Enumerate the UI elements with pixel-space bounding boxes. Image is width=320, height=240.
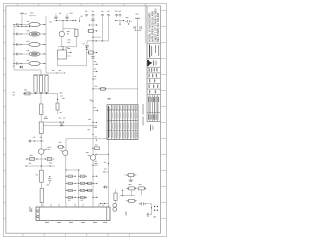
wire mid rail 1 [26,158,56,160]
svg-text:REV B DWG NO 100-482: REV B DWG NO 100-482 [156,12,160,42]
left border zone ticks [3,9,6,11]
wire bottom left stub [100,203,109,205]
ground symbol G1 [55,14,57,18]
resistor R38 vertical [114,193,117,200]
fuse F5 oval body [29,61,40,65]
node dots right text [154,206,155,207]
sheet outer border [3,3,166,236]
wire grid vertical 2 [78,170,80,203]
resistor R8 vertical in loop [75,29,78,36]
wire chain [40,115,42,123]
transistor Q2 [59,31,64,36]
top border zone ticks [16,3,18,6]
resistor R25 grid col B [79,182,87,184]
resistor R29 grid col C [93,182,97,184]
transistor Q1 [38,149,44,155]
transformer T1 winding 2 [39,75,42,92]
title block notes text [148,9,161,43]
connector J1 keying circles [37,210,39,212]
wire table drop to lower right [108,139,110,207]
resistor R21 grid col A [66,182,79,184]
wire stub y71 [93,71,97,73]
diode D1 arrow [20,66,23,69]
wire stub right [93,36,101,38]
capacitor C5 on row [15,62,17,65]
sheet inner border [6,6,161,233]
ground symbol G3 with resistor [128,174,134,177]
wire aux vertical V3 [108,17,110,41]
wire fuse F5 row [14,63,29,65]
wire feed to table column [93,88,138,90]
wire grid top rail [66,169,79,171]
wire lower rail [128,195,136,197]
wire base feed [95,153,108,155]
resistor R7 vertical [40,189,43,203]
wire to connector [40,182,42,188]
wire fuse F2 row [14,33,29,35]
wire K2 loop to right [58,48,87,66]
resistor R31 grid col left [88,182,93,184]
capacitor C5 on contact line [61,123,64,125]
capacitor C11 stub [93,63,98,65]
wire K2 pin right 1 [67,52,71,54]
wire fuse F3 row [14,44,29,46]
drawing number text [150,125,151,132]
bottom border zone ticks [22,233,24,236]
capacitor C14 stub right [94,125,97,127]
power arrows row right [116,14,118,17]
wire stub on drop 3 [104,161,107,164]
fuse F1 oval body [29,22,40,26]
resistor R3 vertical [40,104,43,115]
resistor R22 grid col A [66,189,76,191]
resistor R39 [129,187,135,190]
company logo [147,60,152,66]
title block frame [146,6,148,122]
wire stub on drop 1 [104,171,109,173]
wire T junction right [116,20,124,22]
wire chain below K1 [40,134,42,149]
power arrows row center [86,14,88,17]
wire left feeder top [29,15,36,17]
node A top-left ground cluster [20,12,24,14]
title block rows [147,66,161,68]
wire L to right [146,204,152,215]
connector J1 pin stubs [42,204,44,208]
title block subtitle text [149,45,150,58]
fuse F3 oval body [29,42,40,46]
title block logo box [147,58,161,60]
capacitor C8 on bus [91,18,94,20]
capacitor C18 on drop wire [135,30,136,31]
wire grid bottom connections [65,203,67,207]
wire K2 pin right 2 [67,55,71,57]
capacitor C7 right side [48,178,51,180]
resistor R9 rung [88,29,93,32]
wire stub right 3 [93,121,97,123]
resistor R5 on mid rail [47,158,52,161]
resistor R41 [129,199,135,202]
resistor R40 [139,187,145,190]
title block separator [147,42,161,44]
resistor R11 on feed line [101,88,106,91]
resistor R23 grid col A [66,196,79,198]
wire rung 1 [89,24,96,26]
wire base rail [28,140,44,142]
resistor R2 vertical [56,103,59,110]
wire right oval bus vertical [45,16,47,73]
resistor R30 grid col C [93,196,97,198]
resistor R4 on mid rail [29,158,34,161]
ground symbol G2 [66,14,68,18]
transformer T1 winding 3 [45,75,48,92]
wire bottom-left turn to transformer [14,70,41,75]
wire down to Q2 [62,21,64,32]
wire grid vertical 1 lower [65,155,67,203]
resistor R28 grid col C [93,175,97,177]
indicator LP1 stacked circles [113,203,117,207]
wire chain from transformer [40,94,42,105]
capacitor C17 standalone [127,20,129,23]
wire stub row y73 [46,72,65,74]
wire stub on drop 2 [104,186,109,188]
revision table [149,95,151,122]
wire aux vertical V2 [102,17,104,41]
pin assignment table TB1 [107,105,138,140]
wire rung long [87,40,109,42]
transformer T1 top connect wire [34,74,49,76]
wire cross line lower [66,138,109,140]
relay K2 box [58,50,67,59]
wire grid vertical 1 [65,139,67,150]
wire to relay box [62,47,64,50]
node stub on bus [92,100,93,101]
resistor R27 grid col B [79,196,87,198]
resistor R1 on bottom rail [25,92,30,95]
relay coil K1 body [39,122,43,134]
transistor Q3 [90,155,96,161]
resistor R12 stub [95,147,100,150]
capacitor C10 on bus [91,56,94,58]
capacitor C15 stub [95,163,98,165]
transformer T1 winding 1 [34,75,37,92]
wire input bus horizontal [14,26,30,28]
wire transformer bottom rail [24,93,58,95]
resistor R10 rung [88,51,93,54]
capacitor C2 on row [15,33,17,36]
resistor R6 vertical [40,170,44,182]
wire fuse F1 row [14,24,29,26]
fuse F4 oval body [29,52,40,56]
wire stub right 2 [93,110,98,112]
wire right cluster rail [120,195,128,197]
capacitor C1 on row [15,23,17,26]
wire into connector J1 [41,203,43,208]
pin table label [108,98,111,99]
wire emitter down [40,154,42,170]
resistor R32 grid col left [88,189,93,191]
reference text column [142,104,145,115]
wire table drop vertical [137,18,139,105]
capacitor C3 on row [15,43,17,46]
node label mid [87,128,90,131]
wire left vertical bus [13,25,15,71]
connector J1 long body [36,207,110,221]
capacitor C6 left of rail [28,140,30,143]
fuse F2 oval body [29,32,40,36]
capacitor C19 cluster [141,202,143,205]
wire bus below Q3 [92,160,94,203]
wire drops to rail [131,190,133,196]
wire fuse F4 row [14,53,29,55]
capacitor C4 on row [15,53,17,56]
resistor R26 grid col B [79,189,87,191]
wire long horizontal to bus [61,125,93,127]
transistor Q4 [63,150,68,155]
connector J1 bottom labels [45,221,49,224]
capacitor C9 bracket [86,41,88,45]
wire stub right of rail [79,18,81,22]
wire top rail [54,20,76,22]
wire Q2 collector loop [61,37,63,47]
wire K1 contact lines [43,121,63,123]
wire stub y79 [93,78,96,80]
wire loop bottom [58,46,76,48]
wire main bus vertical [92,17,94,155]
resistor R20 grid col A [66,175,76,177]
resistor R24 grid col B [79,175,87,177]
resistor R19 stub left of Q4 [58,146,62,149]
right border zone ticks [161,9,167,11]
wire right drop from rail [57,94,59,104]
wire mid rail 2 [26,165,55,167]
